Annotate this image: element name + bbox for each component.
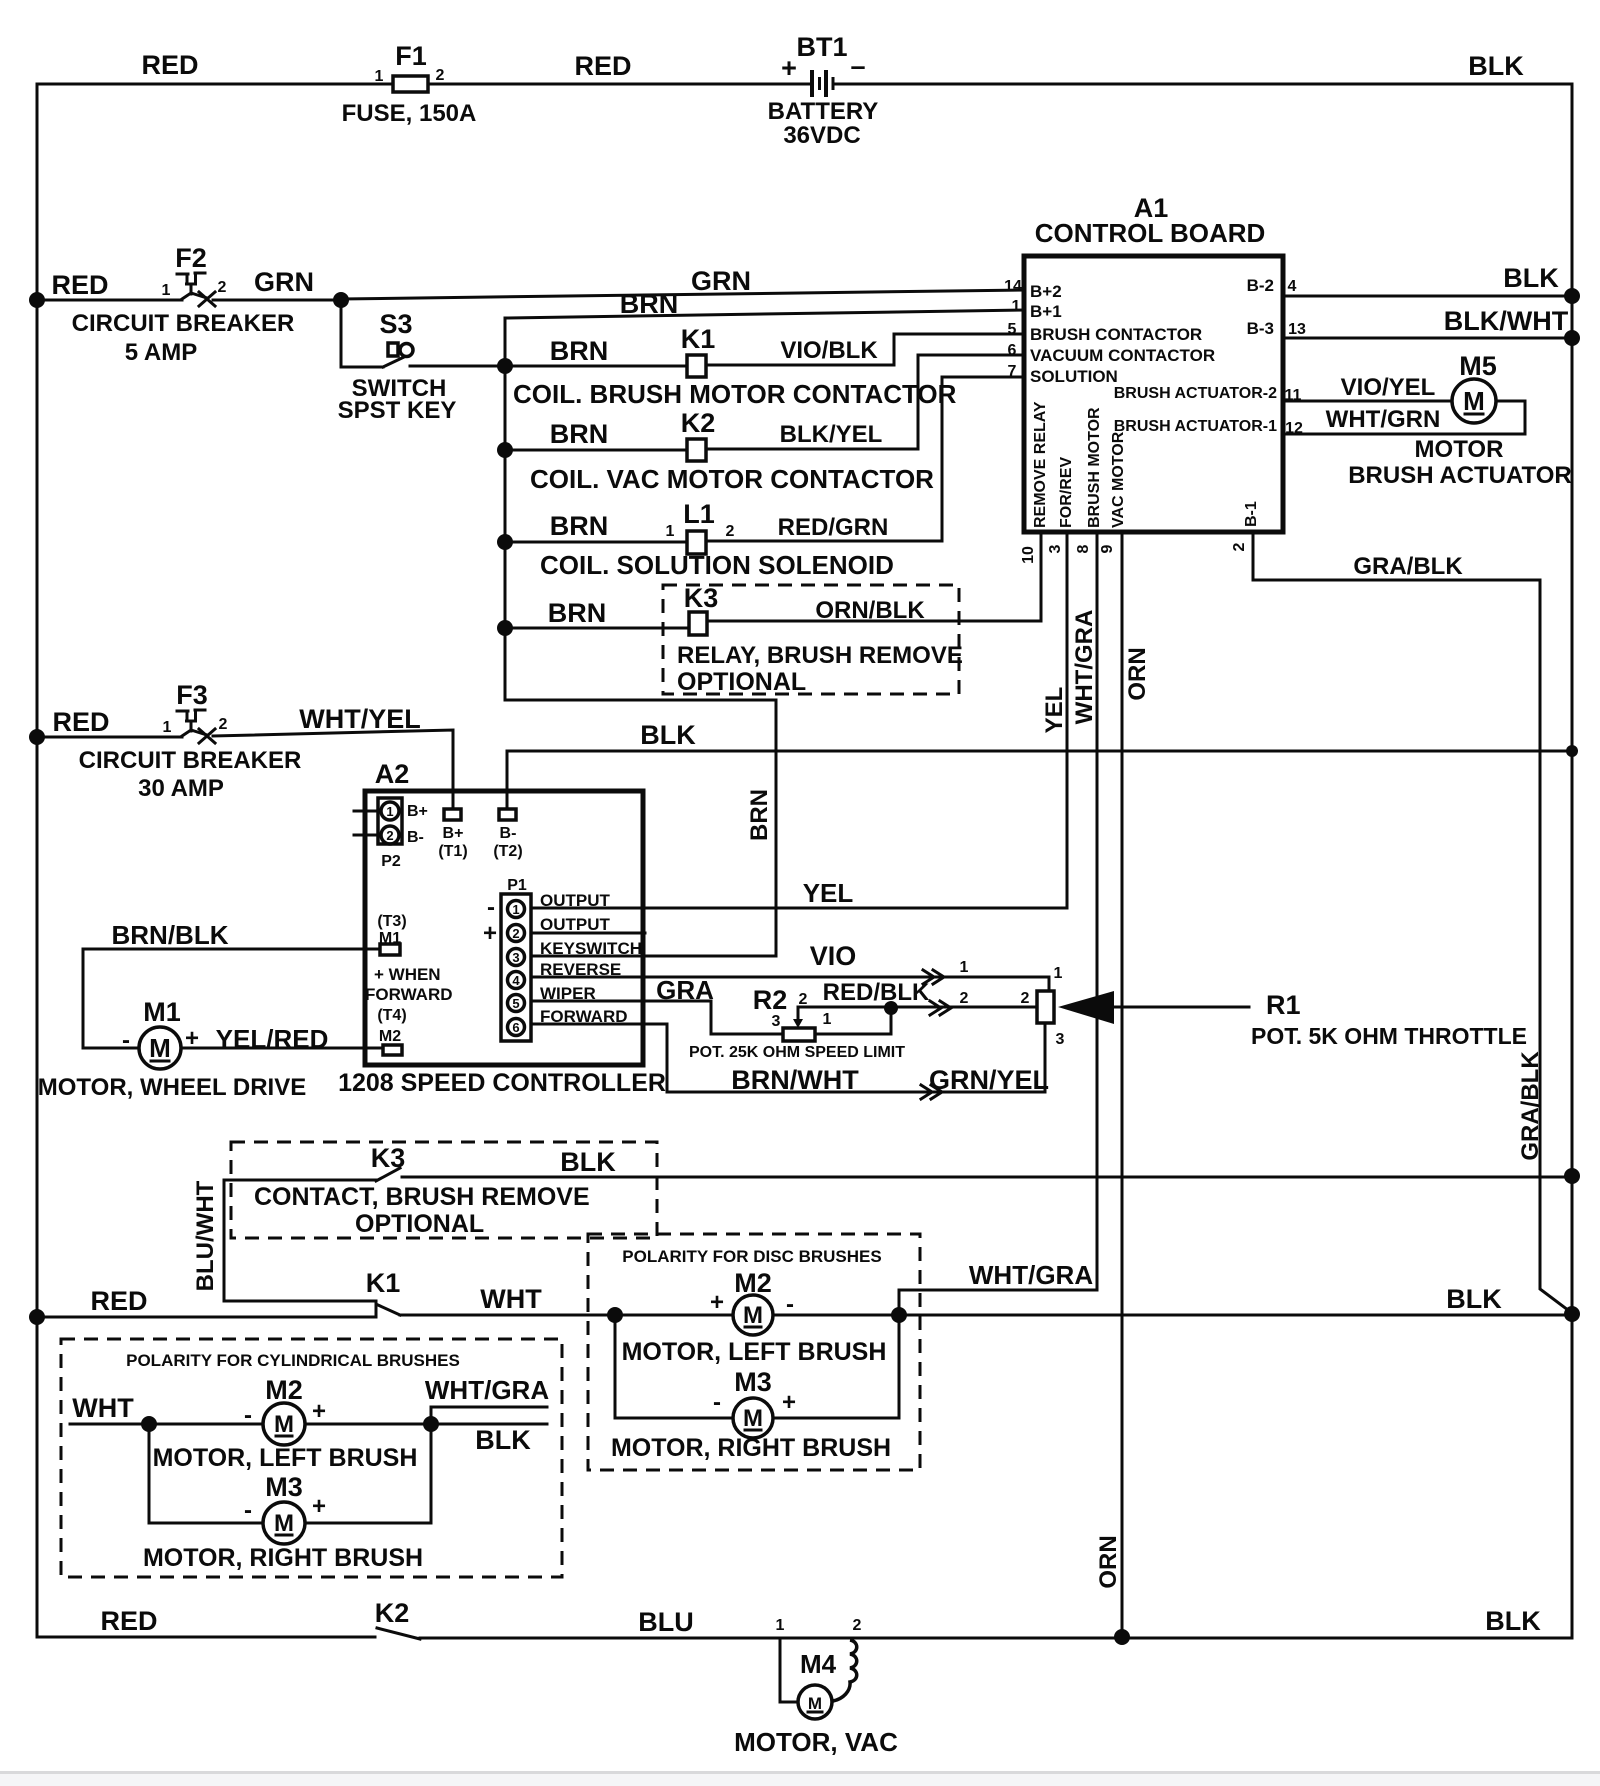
svg-text:A2: A2: [375, 759, 410, 789]
wire: RED from left bus to breaker F2: [37, 299, 182, 302]
svg-text:5 AMP: 5 AMP: [125, 339, 197, 366]
svg-text:BT1: BT1: [796, 32, 847, 62]
wire: S3 to BRN bus: [410, 365, 505, 368]
svg-text:SPST KEY: SPST KEY: [338, 397, 457, 424]
node: junction WHT / M2-M3 left: [607, 1307, 623, 1323]
contact K3: [224, 1143, 1572, 1238]
svg-text:F2: F2: [175, 243, 207, 273]
svg-text:BLU: BLU: [638, 1607, 694, 1637]
wire: P1 pin4 REVERSE / VIO to R1 pin 1: [531, 977, 1049, 991]
svg-text:BLK: BLK: [1503, 263, 1559, 293]
svg-text:RED: RED: [52, 707, 109, 737]
potentiometer R2 speed limit: [689, 985, 905, 1061]
svg-text:ORN/BLK: ORN/BLK: [815, 597, 925, 624]
contactor coil K1: [505, 324, 1024, 409]
node: junction BRN bus / L1: [497, 534, 513, 550]
wire: BLK from junction to right bus: [899, 1314, 1572, 1317]
battery BT1: [768, 32, 879, 149]
svg-text:K1: K1: [681, 324, 716, 354]
svg-text:BLK: BLK: [640, 720, 696, 750]
relay coil K3: [505, 583, 1041, 696]
svg-text:-: -: [244, 1497, 252, 1524]
svg-text:BLK: BLK: [1446, 1284, 1502, 1314]
svg-text:POLARITY FOR DISC BRUSHES: POLARITY FOR DISC BRUSHES: [622, 1247, 881, 1266]
svg-text:4: 4: [1288, 278, 1297, 295]
svg-text:RED: RED: [574, 51, 631, 81]
svg-text:–: –: [850, 51, 865, 81]
wire: P1 pin1 OUTPUT to YEL riser: [531, 907, 1067, 910]
svg-text:BATTERY: BATTERY: [768, 98, 879, 125]
contact K3 (optional) dashed box: [231, 1142, 657, 1238]
svg-text:GRN: GRN: [254, 267, 314, 297]
motor M2 left brush (disc): [622, 1268, 887, 1366]
svg-text:WHT/GRN: WHT/GRN: [1326, 406, 1441, 433]
svg-text:1: 1: [512, 902, 519, 917]
svg-text:B+1: B+1: [1030, 302, 1062, 321]
wire: WHT from K1 to disc brush circuit: [400, 1314, 615, 1317]
svg-text:M4: M4: [800, 1649, 837, 1679]
svg-text:MOTOR, WHEEL DRIVE: MOTOR, WHEEL DRIVE: [38, 1074, 306, 1101]
svg-text:5: 5: [1008, 321, 1017, 338]
wire: pin 8 WHT/GRA riser: [1096, 532, 1099, 1290]
svg-text:FORWARD: FORWARD: [365, 985, 453, 1004]
svg-text:F3: F3: [176, 680, 208, 710]
svg-text:WHT/GRA: WHT/GRA: [425, 1375, 549, 1405]
svg-text:GRN: GRN: [691, 266, 751, 296]
svg-text:MOTOR, RIGHT BRUSH: MOTOR, RIGHT BRUSH: [143, 1544, 423, 1572]
node: junction BRN bus / K2: [497, 442, 513, 458]
node: junction M2-M3 right: [891, 1307, 907, 1323]
svg-text:S3: S3: [379, 309, 412, 339]
node: junction BLK / right bus / GRA-BLK: [1564, 1306, 1580, 1322]
svg-text:RED/GRN: RED/GRN: [778, 514, 889, 541]
terminal B- (T2): [493, 809, 522, 860]
svg-text:B-1: B-1: [1243, 501, 1260, 527]
svg-text:10: 10: [1020, 546, 1037, 564]
motor M1 wheel drive: [38, 997, 306, 1101]
wire: WHT/GRA stub (cyl): [431, 1407, 547, 1424]
wire: M2 (disc) to right junction: [773, 1314, 899, 1317]
svg-text:OUTPUT: OUTPUT: [540, 915, 611, 934]
svg-text:B-: B-: [407, 829, 424, 846]
svg-text:BRUSH ACTUATOR: BRUSH ACTUATOR: [1348, 462, 1572, 489]
svg-text:YEL: YEL: [803, 878, 854, 908]
svg-text:9: 9: [1099, 544, 1116, 553]
svg-text:B+: B+: [407, 803, 428, 820]
svg-text:FOR/REV: FOR/REV: [1058, 457, 1075, 528]
svg-text:8: 8: [1075, 544, 1092, 553]
svg-text:CONTACT, BRUSH REMOVE: CONTACT, BRUSH REMOVE: [254, 1183, 590, 1211]
node: junction left bus / K1 row: [29, 1309, 45, 1325]
wire: GRA/BLK from B-1 to right bus: [1253, 580, 1572, 1313]
svg-text:+: +: [710, 1289, 724, 1316]
contactor coil K2: [505, 355, 1024, 494]
svg-text:BRN: BRN: [746, 789, 773, 841]
contact K1: [366, 1268, 401, 1317]
svg-text:WHT/GRA: WHT/GRA: [1071, 610, 1098, 725]
svg-text:COIL. VAC MOTOR CONTACTOR: COIL. VAC MOTOR CONTACTOR: [530, 464, 934, 494]
circuit breaker F3: [79, 680, 302, 802]
svg-text:M2: M2: [379, 1028, 401, 1045]
svg-text:6: 6: [512, 1020, 519, 1035]
svg-text:BLU/WHT: BLU/WHT: [192, 1180, 219, 1291]
svg-text:1: 1: [1054, 965, 1063, 982]
svg-text:2: 2: [726, 523, 735, 540]
solenoid coil L1: [505, 377, 1024, 580]
svg-text:P1: P1: [507, 877, 527, 894]
svg-text:RED: RED: [141, 50, 198, 80]
svg-text:1: 1: [776, 1617, 785, 1634]
svg-text:30 AMP: 30 AMP: [138, 775, 224, 802]
svg-text:RED/BLK: RED/BLK: [823, 979, 930, 1006]
node: junction B-3 wire / right bus: [1564, 330, 1580, 346]
svg-text:BLK: BLK: [1468, 51, 1524, 81]
svg-text:RED: RED: [90, 1286, 147, 1316]
svg-text:ORN: ORN: [1124, 647, 1151, 700]
svg-text:B-2: B-2: [1247, 276, 1274, 295]
wire: BLK stub (cyl): [431, 1423, 547, 1426]
svg-text:2: 2: [853, 1617, 862, 1634]
svg-text:M2: M2: [734, 1268, 772, 1298]
svg-text:MOTOR, LEFT BRUSH: MOTOR, LEFT BRUSH: [153, 1444, 418, 1472]
svg-text:2: 2: [512, 926, 519, 941]
wire: left bus (RED vertical): [36, 84, 39, 1637]
motor M5 brush actuator: [1348, 351, 1572, 489]
terminal B+ (T1): [438, 809, 467, 860]
connector chevrons (VIO wire): [923, 970, 944, 984]
svg-text:2: 2: [219, 716, 228, 733]
node: junction K3 BLK wire / right bus: [1564, 1168, 1580, 1184]
svg-text:B-: B-: [500, 825, 517, 842]
svg-text:GRN/YEL: GRN/YEL: [929, 1065, 1049, 1095]
node: junction ORN riser / bottom rail: [1114, 1629, 1130, 1645]
svg-text:7: 7: [1008, 363, 1017, 380]
wire: GRN from F2 to S3 junction: [213, 299, 341, 302]
svg-text:BRUSH ACTUATOR-2: BRUSH ACTUATOR-2: [1114, 385, 1277, 402]
svg-text:RED: RED: [100, 1606, 157, 1636]
wire: bottom rail RED from left bus to contact K2: [37, 1636, 375, 1639]
svg-text:COIL. BRUSH MOTOR CONTACTOR: COIL. BRUSH MOTOR CONTACTOR: [513, 379, 957, 409]
wire: B-1 pin 2 riser: [1252, 532, 1255, 580]
svg-text:-: -: [244, 1402, 252, 1429]
svg-text:CONTROL BOARD: CONTROL BOARD: [1035, 218, 1266, 248]
svg-text:BRN: BRN: [550, 419, 609, 449]
svg-text:M1: M1: [143, 997, 181, 1027]
svg-text:VAC MOTOR: VAC MOTOR: [1110, 431, 1127, 528]
svg-text:REMOVE RELAY: REMOVE RELAY: [1032, 401, 1049, 528]
svg-text:BLK: BLK: [475, 1425, 531, 1455]
svg-text:M: M: [808, 1694, 822, 1713]
motor M3 right brush (cylindrical): [143, 1472, 423, 1572]
svg-text:6: 6: [1008, 342, 1017, 359]
svg-text:3: 3: [772, 1013, 781, 1030]
svg-text:1: 1: [386, 804, 393, 819]
svg-text:K2: K2: [681, 408, 716, 438]
svg-text:VIO/YEL: VIO/YEL: [1341, 374, 1436, 401]
svg-text:BLK/YEL: BLK/YEL: [780, 421, 883, 448]
motor M4 vac: [734, 1638, 898, 1757]
svg-text:B+: B+: [443, 825, 464, 842]
svg-text:MOTOR: MOTOR: [1415, 436, 1504, 463]
wire: BRN/BLK from (T3) to M1 loop: [83, 949, 380, 1048]
svg-text:K2: K2: [375, 1598, 410, 1628]
wire: M3 (disc) to right junction: [773, 1315, 899, 1418]
svg-text:1: 1: [666, 523, 675, 540]
svg-text:R2: R2: [753, 985, 788, 1015]
svg-text:+: +: [782, 1389, 796, 1416]
svg-text:COIL. SOLUTION SOLENOID: COIL. SOLUTION SOLENOID: [540, 550, 894, 580]
svg-text:BLK: BLK: [1485, 1606, 1541, 1636]
node: junction B-2 wire / right bus: [1564, 288, 1580, 304]
svg-text:VACUUM CONTACTOR: VACUUM CONTACTOR: [1030, 346, 1215, 365]
wire: WHT stub (cylindrical): [70, 1423, 263, 1426]
svg-text:1208 SPEED CONTROLLER: 1208 SPEED CONTROLLER: [338, 1069, 666, 1097]
svg-text:CIRCUIT BREAKER: CIRCUIT BREAKER: [79, 747, 302, 774]
wire: P1 pin5 WIPER / GRA to R2 pin 3: [531, 1001, 783, 1034]
svg-text:2: 2: [960, 990, 969, 1007]
svg-text:P2: P2: [381, 853, 401, 870]
svg-text:1: 1: [162, 282, 171, 299]
svg-text:L1: L1: [683, 499, 715, 529]
motor M2 left brush (cylindrical): [153, 1375, 418, 1472]
svg-text:1: 1: [375, 68, 384, 85]
svg-text:13: 13: [1288, 321, 1306, 338]
svg-text:B-3: B-3: [1247, 319, 1274, 338]
node: junction cylindrical left: [141, 1416, 157, 1432]
svg-text:M: M: [274, 1510, 294, 1537]
fuse F1: [342, 41, 477, 127]
svg-text:+ WHEN: + WHEN: [374, 965, 441, 984]
wire: P1 pin3 KEYSWITCH to BRN riser: [531, 955, 776, 958]
svg-text:2: 2: [218, 279, 227, 296]
svg-text:BLK/WHT: BLK/WHT: [1444, 306, 1569, 336]
svg-text:OPTIONAL: OPTIONAL: [355, 1210, 484, 1238]
svg-text:VIO/BLK: VIO/BLK: [780, 337, 878, 364]
svg-text:BRN: BRN: [620, 289, 679, 319]
svg-text:SOLUTION: SOLUTION: [1030, 367, 1118, 386]
connector chevrons (RED/BLK wire): [930, 1001, 951, 1015]
control board A1: [1004, 193, 1306, 532]
wire: top rail RED from fuse to battery: [428, 83, 811, 86]
svg-text:ORN: ORN: [1095, 1535, 1122, 1588]
switch S3 SPST key: [338, 300, 457, 424]
svg-text:1: 1: [960, 959, 969, 976]
svg-text:M: M: [149, 1033, 171, 1063]
relay coil K3 (optional) dashed box: [663, 585, 959, 694]
svg-text:(T1): (T1): [438, 843, 467, 860]
svg-text:WHT: WHT: [480, 1284, 542, 1314]
svg-text:K3: K3: [684, 583, 719, 613]
wire: P1 pin2 OUTPUT stub: [531, 932, 645, 935]
wire: loop to motor M3 (disc): [615, 1315, 733, 1418]
node: junction BLK wire / right bus: [1566, 745, 1578, 757]
svg-text:BRN: BRN: [550, 336, 609, 366]
wire: top rail RED from left bus to fuse F1: [37, 83, 393, 86]
svg-text:1: 1: [163, 719, 172, 736]
polarity for cylindrical brushes dashed box: [61, 1339, 562, 1577]
node: junction GRN / S3 branch: [333, 292, 349, 308]
svg-text:GRA/BLK: GRA/BLK: [1517, 1051, 1544, 1161]
wire: pin 11 VIO/YEL to motor M5: [1283, 400, 1452, 403]
svg-text:M3: M3: [265, 1472, 303, 1502]
node: junction left bus / F3 row: [29, 729, 45, 745]
circuit breaker F2: [72, 243, 295, 366]
svg-text:GRA: GRA: [656, 975, 714, 1005]
svg-text:FUSE, 150A: FUSE, 150A: [342, 100, 477, 127]
svg-text:MOTOR, LEFT BRUSH: MOTOR, LEFT BRUSH: [622, 1338, 887, 1366]
svg-text:WHT: WHT: [72, 1393, 134, 1423]
wire: WHT/GRA from junction up to pin 8 riser: [899, 1290, 1097, 1315]
svg-text:5: 5: [512, 996, 519, 1011]
node: junction BRN bus / K3 coil: [497, 620, 513, 636]
connector P1: [483, 877, 642, 1041]
wire: BLK from A2 B- (T2) to right bus: [507, 751, 1572, 809]
scanner edge artifact: [0, 1771, 1600, 1774]
svg-text:-: -: [122, 1027, 130, 1054]
svg-text:VIO: VIO: [810, 941, 857, 971]
svg-text:WHT/GRA: WHT/GRA: [969, 1260, 1093, 1290]
svg-text:RELAY, BRUSH REMOVE: RELAY, BRUSH REMOVE: [677, 642, 963, 669]
svg-text:M: M: [1463, 386, 1485, 416]
svg-text:B+2: B+2: [1030, 282, 1062, 301]
wire: M2 (cyl) to right junction: [305, 1423, 431, 1426]
wire: BLU/WHT riser: [224, 1180, 376, 1301]
svg-text:(T2): (T2): [493, 843, 522, 860]
terminal M1 (T3): [377, 913, 406, 955]
svg-text:(T4): (T4): [377, 1007, 406, 1024]
svg-text:R1: R1: [1266, 990, 1301, 1020]
motor M3 right brush (disc): [611, 1367, 891, 1462]
svg-text:M5: M5: [1459, 351, 1497, 381]
wire: M3 (cyl) to right junction: [305, 1424, 431, 1523]
connector chevrons (GRN/YEL wire): [921, 1085, 942, 1099]
wire: B-3 to right bus (BLK/WHT): [1283, 337, 1572, 340]
svg-text:4: 4: [512, 973, 520, 988]
wire: RED from left bus to breaker F3: [37, 736, 182, 739]
svg-text:GRA/BLK: GRA/BLK: [1353, 553, 1463, 580]
svg-text:POT. 25K OHM SPEED LIMIT: POT. 25K OHM SPEED LIMIT: [689, 1044, 905, 1061]
svg-text:BRN: BRN: [550, 511, 609, 541]
svg-text:BRN: BRN: [548, 598, 607, 628]
wire: BRN to A1 pin 1: [505, 310, 1024, 318]
svg-text:M: M: [743, 1302, 763, 1329]
svg-text:BRUSH ACTUATOR-1: BRUSH ACTUATOR-1: [1114, 418, 1277, 435]
wire: top rail BLK from battery to right bus: [835, 83, 1572, 86]
node: junction left bus / F2 row: [29, 292, 45, 308]
svg-text:BRN/WHT: BRN/WHT: [731, 1065, 859, 1095]
svg-text:POLARITY FOR CYLINDRICAL BRUSH: POLARITY FOR CYLINDRICAL BRUSHES: [126, 1351, 460, 1370]
svg-text:M: M: [743, 1405, 763, 1432]
svg-text:CIRCUIT BREAKER: CIRCUIT BREAKER: [72, 310, 295, 337]
wire: GRN to A1 pin 14: [341, 290, 1024, 299]
svg-text:2: 2: [1021, 990, 1030, 1007]
node: junction BRN bus / S3: [497, 358, 513, 374]
svg-text:MOTOR, RIGHT BRUSH: MOTOR, RIGHT BRUSH: [611, 1434, 891, 1462]
wire: YEL/RED from M1 to (T4): [181, 1047, 383, 1050]
speed controller A2: [338, 759, 666, 1097]
svg-text:YEL: YEL: [1041, 687, 1068, 734]
potentiometer R1 throttle: [1037, 990, 1527, 1049]
svg-text:K1: K1: [366, 1268, 401, 1298]
svg-text:-: -: [713, 1389, 721, 1416]
wire: R2 pin1 to wiper junction: [815, 1008, 891, 1034]
wire: loop to motor M3 (cyl): [149, 1424, 263, 1523]
svg-text:MOTOR, VAC: MOTOR, VAC: [734, 1727, 898, 1757]
svg-text:+: +: [312, 1398, 326, 1425]
svg-text:M: M: [274, 1411, 294, 1438]
svg-text:M2: M2: [265, 1375, 303, 1405]
wire: pin 12 WHT/GRN to motor M5: [1283, 401, 1525, 434]
svg-text:BRN/BLK: BRN/BLK: [112, 920, 229, 950]
wire: BRN bus vertical: [505, 318, 776, 956]
wire: ORN/BLK riser to A1 pin 10: [1040, 532, 1043, 621]
node: junction R2 pin1 / wiper: [884, 1001, 898, 1015]
wire: bottom rail BLU/BLK to right bus: [420, 1637, 1572, 1640]
wire: RED/BLK from R2 wiper to R1 pin 2: [798, 1006, 1037, 1009]
svg-text:POT. 5K OHM THROTTLE: POT. 5K OHM THROTTLE: [1251, 1023, 1527, 1049]
svg-text:OPTIONAL: OPTIONAL: [677, 668, 806, 696]
svg-text:BRUSH CONTACTOR: BRUSH CONTACTOR: [1030, 325, 1202, 344]
wire: right bus (BLK vertical): [1571, 84, 1574, 1637]
svg-text:2: 2: [1231, 542, 1248, 551]
svg-text:2: 2: [386, 828, 393, 843]
svg-text:WHT/YEL: WHT/YEL: [299, 704, 421, 734]
wire: P1 pin6 FORWARD / BRN-WHT to R1 pin 3: [531, 1023, 1045, 1092]
wire: to motor M2 (disc): [615, 1314, 733, 1317]
polarity for disc brushes dashed box: [588, 1234, 920, 1470]
wire: pin 3 YEL riser: [1066, 532, 1069, 906]
svg-text:YEL/RED: YEL/RED: [216, 1024, 329, 1054]
svg-text:F1: F1: [395, 41, 427, 71]
svg-text:3: 3: [1047, 544, 1064, 553]
svg-text:2: 2: [436, 67, 445, 84]
node: junction cylindrical right: [423, 1416, 439, 1432]
svg-text:1: 1: [823, 1011, 832, 1028]
svg-text:14: 14: [1004, 278, 1022, 295]
svg-text:2: 2: [799, 991, 808, 1008]
svg-text:M3: M3: [734, 1367, 772, 1397]
wire: RED from left bus to contact K1: [37, 1316, 376, 1319]
svg-text:+: +: [483, 920, 497, 947]
svg-text:+: +: [781, 53, 797, 83]
svg-text:BRUSH MOTOR: BRUSH MOTOR: [1086, 407, 1103, 528]
svg-text:(T3): (T3): [377, 913, 406, 930]
svg-text:3: 3: [512, 950, 519, 965]
wire: pin 9 ORN riser: [1121, 532, 1124, 1637]
svg-text:RED: RED: [51, 270, 108, 300]
connector P2: [354, 798, 428, 870]
svg-text:BLK: BLK: [560, 1147, 616, 1177]
contact K2: [375, 1598, 420, 1639]
svg-text:36VDC: 36VDC: [783, 122, 860, 149]
wire: B-2 to right bus (BLK): [1283, 295, 1572, 298]
svg-text:-: -: [487, 894, 495, 921]
terminal M2 (T4): [377, 1007, 406, 1055]
svg-text:+: +: [312, 1493, 326, 1520]
svg-text:1: 1: [1012, 298, 1021, 315]
wire: WHT/YEL from F3 to A2 B+ (T1): [213, 730, 453, 809]
svg-text:3: 3: [1056, 1031, 1065, 1048]
